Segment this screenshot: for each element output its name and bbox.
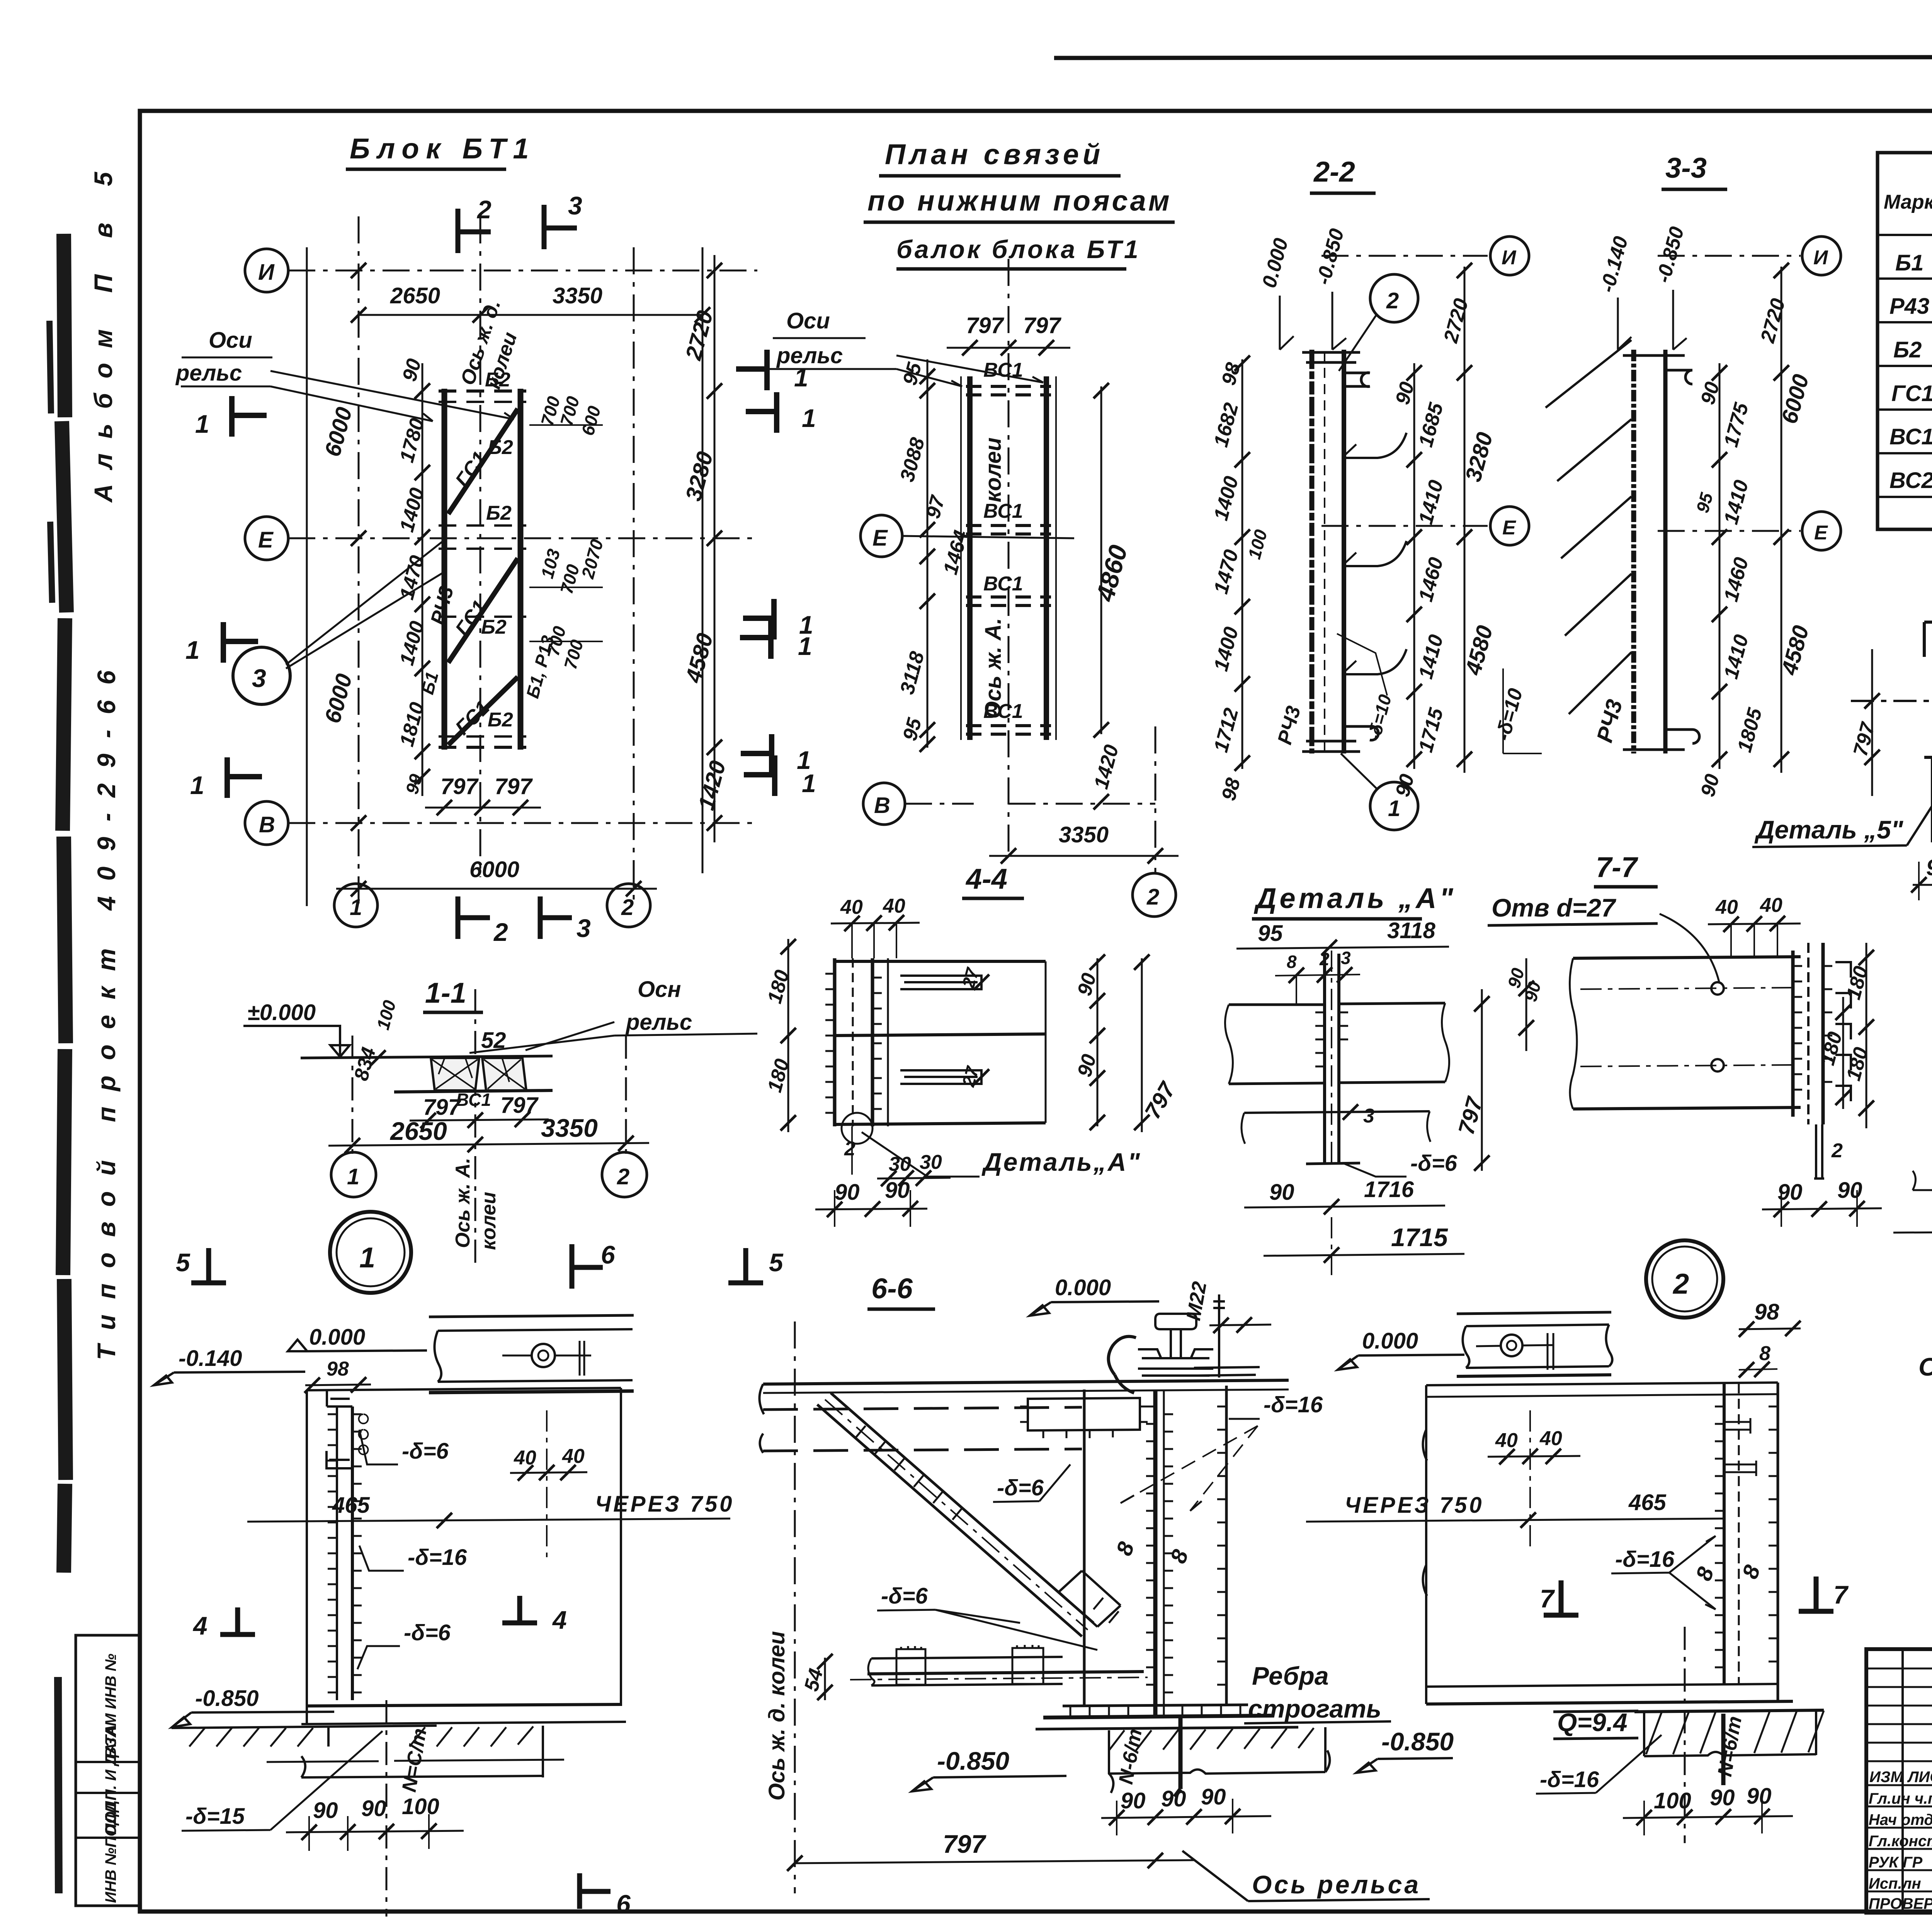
stub splice plates xyxy=(900,976,981,989)
svg-text:рельс: рельс xyxy=(175,361,242,386)
top dimension line 2650/3350 xyxy=(359,314,702,316)
bottom end plate xyxy=(1302,726,1378,752)
beam verticals xyxy=(1631,350,1636,753)
svg-text:-δ=6: -δ=6 xyxy=(404,1620,451,1645)
brace GC1 diagonal 3 xyxy=(448,677,518,745)
svg-text:ЧЕРЕЗ 750: ЧЕРЕЗ 750 xyxy=(1345,1493,1484,1518)
svg-text:465: 465 xyxy=(332,1493,370,1518)
svg-text:рельс: рельс xyxy=(625,1010,692,1035)
svg-text:2: 2 xyxy=(1146,884,1159,910)
crane beam block left flange heavy xyxy=(442,389,447,750)
svg-text:Ось рельса: Ось рельса xyxy=(1252,1870,1421,1899)
right 4860 dim xyxy=(1100,386,1102,734)
center rail axis dash-dot xyxy=(1008,259,1010,854)
beam outline xyxy=(1573,957,1801,958)
rail girder top right xyxy=(429,1315,634,1317)
svg-text:2070: 2070 xyxy=(577,537,607,581)
svg-text:3: 3 xyxy=(577,914,591,942)
svg-text:колеи: колеи xyxy=(478,1192,500,1250)
anchor hook at rail xyxy=(1109,1337,1136,1393)
svg-text:90: 90 xyxy=(885,1178,910,1203)
svg-text:1685: 1685 xyxy=(1415,400,1448,449)
svg-text:ЧЕРЕЗ 750: ЧЕРЕЗ 750 xyxy=(595,1492,735,1517)
svg-text:95: 95 xyxy=(1692,490,1717,515)
right stiffener verticals xyxy=(1723,1383,1726,1685)
svg-text:-0.140: -0.140 xyxy=(179,1346,242,1371)
svg-text:1410: 1410 xyxy=(1720,478,1753,527)
svg-text:797: 797 xyxy=(1140,1077,1181,1123)
svg-text:балок блока БТ1: балок блока БТ1 xyxy=(896,235,1141,264)
bottom 797 797 dims xyxy=(425,807,541,809)
svg-text:План связей: План связей xyxy=(885,138,1104,170)
svg-text:7-7: 7-7 xyxy=(1596,851,1639,883)
title block outer xyxy=(1866,1649,1932,1913)
svg-text:Марка: Марка xyxy=(1884,191,1932,213)
beam horizontals with breaks xyxy=(1229,1003,1445,1005)
svg-text:8: 8 xyxy=(1691,1563,1719,1584)
svg-text:834: 834 xyxy=(350,1045,380,1083)
svg-text:-0.850: -0.850 xyxy=(195,1686,259,1711)
grid circle 3 with leaders xyxy=(233,647,290,704)
vertical grid line 1 solid xyxy=(306,247,308,906)
svg-text:-δ=16: -δ=16 xyxy=(408,1545,467,1570)
bottom chord xyxy=(394,1090,553,1092)
svg-text:40: 40 xyxy=(883,895,905,917)
svg-text:5: 5 xyxy=(176,1248,190,1277)
tie BC1 no3 xyxy=(966,597,1051,605)
svg-text:465: 465 xyxy=(1628,1490,1667,1515)
svg-text:2650: 2650 xyxy=(389,1117,447,1145)
svg-text:Альбом П в 5: Альбом П в 5 xyxy=(89,157,117,503)
svg-text:N=6/т: N=6/т xyxy=(1714,1714,1746,1778)
svg-text:2: 2 xyxy=(1672,1268,1689,1300)
svg-text:Оси: Оси xyxy=(209,328,252,353)
axis verticals dash-dot xyxy=(352,989,626,1264)
flange below xyxy=(1244,1111,1430,1113)
svg-text:Осн: Осн xyxy=(638,977,681,1002)
svg-text:90: 90 xyxy=(835,1180,860,1205)
svg-text:Общие указания: Общие указания xyxy=(1918,1352,1932,1381)
right dimension chain xyxy=(714,255,716,842)
svg-text:-δ=16: -δ=16 xyxy=(1264,1392,1323,1417)
svg-text:0.000: 0.000 xyxy=(1362,1328,1418,1354)
top tie BC1 xyxy=(966,386,1051,395)
rail axis dash-dot xyxy=(1851,700,1932,702)
axis I xyxy=(1658,255,1801,257)
svg-text:1460: 1460 xyxy=(1415,555,1448,604)
svg-text:строгать: строгать xyxy=(1248,1694,1381,1723)
crane beam block right flange heavy xyxy=(518,389,524,750)
vertical grid line 2 solid xyxy=(702,247,704,873)
svg-text:-0.850: -0.850 xyxy=(1381,1727,1454,1756)
svg-text:95: 95 xyxy=(899,715,926,743)
svg-text:40: 40 xyxy=(1715,896,1738,918)
bolt holes xyxy=(1711,982,1724,995)
vertical grid axis 1 dash-dot xyxy=(358,216,360,906)
rail pads hatched xyxy=(431,1058,479,1090)
svg-text:8: 8 xyxy=(1111,1538,1139,1559)
svg-text:ВЗАМ ИНВ №: ВЗАМ ИНВ № xyxy=(102,1653,119,1758)
bracket stubs with leaders xyxy=(1344,433,1406,674)
bottom-left stamp boxes xyxy=(76,1635,140,1906)
svg-text:600: 600 xyxy=(577,404,604,438)
right rotated dims 180 180 xyxy=(1866,943,1867,1128)
svg-text:РУК ГР: РУК ГР xyxy=(1869,1854,1923,1871)
svg-text:3088: 3088 xyxy=(896,435,929,484)
svg-text:1420: 1420 xyxy=(1090,742,1123,791)
svg-text:-δ=15: -δ=15 xyxy=(185,1804,245,1829)
svg-text:3280: 3280 xyxy=(1461,430,1498,484)
svg-text:100: 100 xyxy=(1654,1788,1691,1813)
svg-text:40: 40 xyxy=(1760,894,1782,917)
bolt row axes dash-dot xyxy=(1580,988,1793,1066)
svg-text:Гл.ин ч.пр: Гл.ин ч.пр xyxy=(1869,1790,1932,1807)
svg-text:Е: Е xyxy=(1502,517,1516,539)
column base xyxy=(1063,1705,1248,1706)
svg-text:90: 90 xyxy=(1747,1784,1772,1809)
svg-text:180: 180 xyxy=(1842,964,1872,1002)
left dim chain xyxy=(1242,359,1243,769)
svg-text:52: 52 xyxy=(481,1028,506,1053)
dim 54 rotated xyxy=(824,1658,826,1700)
svg-text:3350: 3350 xyxy=(541,1114,598,1142)
svg-text:7: 7 xyxy=(1540,1584,1555,1613)
svg-text:1400: 1400 xyxy=(396,485,429,534)
circled 1 pointer xyxy=(1370,782,1418,830)
top slab outline xyxy=(1924,622,1932,657)
svg-text:Б2: Б2 xyxy=(481,616,507,638)
svg-text:Е: Е xyxy=(872,526,888,551)
svg-text:797: 797 xyxy=(440,774,479,799)
vertical grid axis 2 dash-dot xyxy=(633,247,635,906)
svg-text:ИЗМ: ИЗМ xyxy=(1869,1769,1904,1786)
svg-text:Ребра: Ребра xyxy=(1252,1662,1329,1690)
svg-text:-δ=6: -δ=6 xyxy=(1410,1151,1458,1176)
svg-text:27: 27 xyxy=(958,1063,983,1089)
svg-text:ПРОВЕР: ПРОВЕР xyxy=(1869,1895,1932,1912)
svg-text:1400: 1400 xyxy=(1210,624,1243,673)
svg-text:2720: 2720 xyxy=(1756,296,1789,345)
right inner small dims xyxy=(529,425,603,641)
bottom hanging bolts xyxy=(1814,1124,1824,1179)
svg-text:-δ=10: -δ=10 xyxy=(1492,686,1527,743)
table row lines xyxy=(1878,235,1932,497)
svg-text:2: 2 xyxy=(617,1164,629,1189)
svg-text:27: 27 xyxy=(958,965,983,990)
svg-text:1420: 1420 xyxy=(694,758,731,813)
svg-text:0.000: 0.000 xyxy=(1055,1275,1111,1300)
column plate verticals xyxy=(833,958,837,1126)
vertical axis to circle 2 xyxy=(1155,726,1156,873)
svg-text:1410: 1410 xyxy=(1720,632,1753,681)
svg-text:1780: 1780 xyxy=(396,416,429,465)
svg-text:100: 100 xyxy=(372,998,400,1032)
axis E xyxy=(1658,530,1801,532)
svg-text:98: 98 xyxy=(1754,1299,1779,1325)
svg-text:Е: Е xyxy=(258,527,274,553)
top stubs on stiffener xyxy=(1724,1418,1756,1476)
big circled 1 xyxy=(330,1212,411,1293)
inner dashed chords at E xyxy=(439,526,526,617)
svg-text:700: 700 xyxy=(556,562,583,596)
svg-text:3: 3 xyxy=(252,664,266,692)
svg-text:797: 797 xyxy=(500,1093,539,1118)
plate bottom with delta callout xyxy=(1306,1163,1360,1164)
left rotated dims 90 90 xyxy=(1526,958,1527,1051)
svg-text:1810: 1810 xyxy=(396,700,429,749)
svg-text:1715: 1715 xyxy=(1415,705,1448,755)
rail girder top xyxy=(1457,1312,1611,1314)
svg-text:3350: 3350 xyxy=(553,283,602,308)
svg-text:3: 3 xyxy=(568,191,582,220)
svg-text:Ось ж. А.: Ось ж. А. xyxy=(452,1158,474,1248)
svg-text:4-4: 4-4 xyxy=(965,863,1007,895)
svg-text:6000: 6000 xyxy=(320,671,357,726)
big diagonal brace xyxy=(817,1393,1094,1636)
svg-text:В: В xyxy=(874,793,890,818)
vertical plate xyxy=(1325,954,1339,1164)
scan dark left edge strip xyxy=(62,234,66,1573)
block top and bottom dashed edges xyxy=(439,391,526,747)
svg-text:рельс: рельс xyxy=(776,343,843,368)
svg-text:4580: 4580 xyxy=(681,631,718,685)
svg-text:3350: 3350 xyxy=(1059,822,1109,847)
svg-text:7: 7 xyxy=(1833,1580,1849,1609)
svg-text:Деталь „5": Деталь „5" xyxy=(1754,815,1903,844)
anchor axis xyxy=(386,1700,388,1917)
svg-text:Типовой проект 409-29-66: Типовой проект 409-29-66 xyxy=(92,655,121,1360)
svg-text:1775: 1775 xyxy=(1720,400,1753,449)
ground line with hatch xyxy=(172,1726,437,1728)
svg-text:8: 8 xyxy=(1165,1546,1193,1566)
svg-text:1: 1 xyxy=(799,611,813,639)
top / bottom caps xyxy=(1623,355,1699,750)
svg-text:90: 90 xyxy=(1121,1788,1146,1813)
anchor bolt xyxy=(1721,1714,1726,1785)
svg-text:1460: 1460 xyxy=(1720,555,1753,604)
svg-text:3: 3 xyxy=(1363,1105,1374,1127)
svg-text:Е: Е xyxy=(1814,522,1828,544)
svg-text:6000: 6000 xyxy=(469,857,519,882)
svg-text:3: 3 xyxy=(1341,948,1351,968)
svg-text:Б2: Б2 xyxy=(488,709,513,731)
right outer dim chain xyxy=(1464,267,1466,773)
top beam lines xyxy=(1426,1383,1778,1385)
svg-text:40: 40 xyxy=(562,1445,585,1468)
svg-text:8: 8 xyxy=(1287,952,1297,972)
circled 2 xyxy=(1133,873,1176,917)
svg-text:Ось ж. А.: Ось ж. А. xyxy=(981,618,1006,719)
svg-text:0.000: 0.000 xyxy=(1258,236,1293,290)
left signature grid rows xyxy=(1866,1668,1932,1891)
svg-text:2: 2 xyxy=(493,918,508,946)
svg-text:8: 8 xyxy=(1737,1561,1765,1582)
svg-text:1805: 1805 xyxy=(1733,705,1767,755)
svg-text:Р43: Р43 xyxy=(1889,294,1929,319)
svg-text:колеи: колеи xyxy=(981,437,1006,502)
svg-text:90: 90 xyxy=(1926,855,1932,880)
svg-text:1470: 1470 xyxy=(396,553,429,602)
svg-text:1400: 1400 xyxy=(396,619,429,668)
grid axis I horizontal xyxy=(245,249,288,292)
svg-text:1400: 1400 xyxy=(1210,474,1243,523)
svg-text:1470: 1470 xyxy=(1210,547,1243,596)
brace end plate xyxy=(1059,1571,1121,1627)
svg-text:1: 1 xyxy=(797,746,811,774)
svg-text:Б2: Б2 xyxy=(486,502,512,524)
svg-text:90: 90 xyxy=(313,1798,338,1823)
svg-text:±0.000: ±0.000 xyxy=(247,1000,316,1025)
svg-text:797: 797 xyxy=(423,1095,462,1120)
far side dashed chords xyxy=(763,1407,1082,1410)
svg-text:И: И xyxy=(1502,247,1517,269)
foundation outline xyxy=(301,1726,543,1777)
svg-text:40: 40 xyxy=(1495,1429,1518,1452)
weld ticks column xyxy=(825,974,835,1113)
svg-text:3118: 3118 xyxy=(896,649,929,697)
axis E line + circle xyxy=(1321,525,1488,527)
right dim chain inner xyxy=(1719,363,1721,769)
svg-text:2-2: 2-2 xyxy=(1313,156,1355,188)
svg-text:Б2: Б2 xyxy=(1893,337,1922,362)
svg-text:-δ=6: -δ=6 xyxy=(997,1475,1044,1500)
svg-text:Оси: Оси xyxy=(786,308,830,333)
svg-text:1410: 1410 xyxy=(1415,632,1448,681)
small circles weld dots xyxy=(359,1414,368,1454)
svg-text:4580: 4580 xyxy=(1461,623,1498,678)
grid axis E horizontal xyxy=(245,517,288,560)
svg-text:В: В xyxy=(259,812,275,837)
svg-text:1: 1 xyxy=(190,771,204,799)
svg-text:ГС1: ГС1 xyxy=(1891,381,1932,406)
bottom dim 1470 1400 xyxy=(1893,1231,1932,1233)
base plate and ground xyxy=(1036,1727,1298,1729)
svg-text:98: 98 xyxy=(327,1358,349,1380)
right inner dim chain xyxy=(1413,363,1415,769)
svg-text:1715: 1715 xyxy=(1391,1223,1448,1252)
svg-text:40: 40 xyxy=(840,896,863,918)
foundation hatched xyxy=(1634,1710,1824,1712)
svg-text:6: 6 xyxy=(616,1889,631,1918)
svg-text:1716: 1716 xyxy=(1364,1177,1414,1202)
svg-text:90: 90 xyxy=(1697,772,1724,799)
B axis circle xyxy=(863,783,905,825)
svg-text:3118: 3118 xyxy=(1387,918,1435,943)
E axis circle and line xyxy=(861,515,902,557)
gusset plate top xyxy=(1028,1398,1140,1430)
svg-text:1: 1 xyxy=(195,410,209,438)
svg-text:Нач отд: Нач отд xyxy=(1869,1811,1932,1828)
svg-text:-0.140: -0.140 xyxy=(1596,234,1633,295)
svg-text:97: 97 xyxy=(922,493,950,521)
top slab line xyxy=(301,1056,553,1058)
svg-text:4: 4 xyxy=(192,1611,207,1640)
small angle profiles right xyxy=(1835,962,1851,1101)
right dims 90 90 rotated xyxy=(1097,958,1099,1126)
svg-text:Ось ж. д. колеи: Ось ж. д. колеи xyxy=(764,1631,789,1801)
top end plate xyxy=(1302,352,1370,387)
left signature grid columns xyxy=(1903,1649,1932,1913)
svg-text:-δ=16: -δ=16 xyxy=(1540,1767,1599,1792)
axis I line + circle xyxy=(1321,255,1488,257)
svg-text:2650: 2650 xyxy=(390,283,440,308)
svg-text:5: 5 xyxy=(769,1248,784,1277)
center axis dash-dot xyxy=(1684,1627,1686,1843)
table outer box xyxy=(1878,153,1932,529)
svg-text:6-6: 6-6 xyxy=(871,1272,913,1304)
column I-beam verticals xyxy=(1083,1389,1086,1705)
top hook stub xyxy=(327,1390,352,1406)
svg-text:797: 797 xyxy=(495,774,533,799)
panel outline xyxy=(1425,1385,1427,1704)
left 180 180 rotated xyxy=(787,939,789,1132)
svg-text:РЧ3: РЧ3 xyxy=(427,584,458,627)
svg-text:1: 1 xyxy=(1388,796,1400,821)
section 6 mark bottom xyxy=(580,1873,611,1909)
weld ticks plate xyxy=(1315,1012,1348,1066)
weld ticks column xyxy=(1146,1406,1155,1685)
svg-text:2720: 2720 xyxy=(1439,296,1473,345)
svg-text:ВС1: ВС1 xyxy=(983,500,1023,522)
bottom section flags 2 3 xyxy=(458,896,490,939)
rail fastening profile xyxy=(1155,1314,1196,1329)
svg-text:Деталь„А": Деталь„А" xyxy=(981,1148,1141,1176)
right outer dim chain xyxy=(1781,267,1782,773)
svg-text:Б1: Б1 xyxy=(1895,250,1923,276)
svg-text:98: 98 xyxy=(1218,776,1245,803)
svg-text:6: 6 xyxy=(601,1240,616,1269)
svg-text:1712: 1712 xyxy=(1210,706,1243,755)
scan edge top line xyxy=(1054,56,1932,58)
svg-text:100: 100 xyxy=(402,1794,439,1819)
rail axis vertical dash-dot xyxy=(480,216,481,877)
top beam flange xyxy=(763,1380,1289,1384)
svg-text:2: 2 xyxy=(476,195,492,224)
svg-text:1410: 1410 xyxy=(1415,478,1448,527)
tie BC1 no2 xyxy=(966,526,1051,534)
beam lower chords heavy verticals xyxy=(967,376,973,740)
svg-text:90: 90 xyxy=(1710,1785,1735,1810)
svg-text:-δ=16: -δ=16 xyxy=(1615,1547,1675,1572)
svg-text:1682: 1682 xyxy=(1210,400,1243,449)
svg-text:6000: 6000 xyxy=(320,405,357,459)
svg-text:54: 54 xyxy=(800,1666,828,1694)
1420 dim right xyxy=(1094,794,1109,810)
svg-text:Блок БТ1: Блок БТ1 xyxy=(350,133,536,165)
svg-text:797: 797 xyxy=(1023,313,1062,338)
svg-text:ВС2: ВС2 xyxy=(1889,468,1932,493)
circled 2 pointer xyxy=(1370,274,1418,322)
bottom grid circles 1 2 xyxy=(334,884,378,927)
svg-text:РЧ3: РЧ3 xyxy=(1592,697,1628,745)
svg-text:1: 1 xyxy=(185,636,200,664)
grid axis B horizontal xyxy=(245,801,288,845)
lower left beam xyxy=(871,1657,1063,1658)
svg-text:2: 2 xyxy=(621,895,634,920)
svg-text:ВС1: ВС1 xyxy=(1889,424,1932,449)
svg-text:4: 4 xyxy=(552,1605,567,1634)
svg-text:1: 1 xyxy=(359,1242,375,1274)
grid circles 1 2 xyxy=(331,1152,376,1197)
bolt plates on lower beam xyxy=(896,1646,925,1685)
svg-text:3-3: 3-3 xyxy=(1665,152,1707,184)
rail brace diagonals xyxy=(1546,340,1631,714)
svg-text:Деталь „А": Деталь „А" xyxy=(1253,882,1456,914)
svg-text:ВС1: ВС1 xyxy=(456,1090,491,1110)
svg-text:ВС1: ВС1 xyxy=(983,359,1023,381)
svg-text:1: 1 xyxy=(802,404,816,432)
web below with break xyxy=(1913,1113,1932,1198)
